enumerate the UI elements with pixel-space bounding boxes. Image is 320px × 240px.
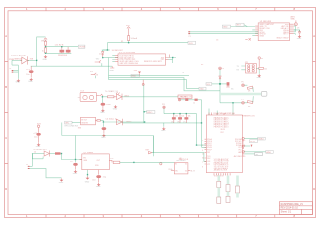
wire connector loop [12,60,18,79]
svg-text:SDA1: SDA1 [258,138,264,141]
resistor R12 [184,117,188,119]
wires from J2 [30,154,33,167]
osc bottom pin 2 cap [98,170,100,175]
3V3 supply dot [37,125,39,127]
wire GND label to pin [231,26,253,28]
ground under C1 [29,78,33,81]
wire flag to 5V run [101,63,103,66]
ferrite bead L1 [36,133,40,136]
wire mcu top riser [232,103,234,115]
svg-text:3V3: 3V3 [78,128,81,130]
junction wire A at D2 [61,46,62,47]
net label box LED RED [178,95,192,98]
pin numbers outside right [244,140,246,158]
junction on rail [128,42,129,43]
net flag arrow GND-sense [95,60,101,63]
right pin stubs [290,24,294,34]
svg-text:RST: RST [221,132,224,134]
net label box 5V0 [188,41,196,44]
svg-text:PWM/GPIO_H1: PWM/GPIO_H1 [242,116,255,118]
antenna wire TX [189,31,259,33]
IC6 MCU body [206,115,242,173]
wire stubs left short [252,27,255,36]
svg-text:GND: GND [96,186,101,188]
junction [107,49,108,50]
svg-text:Sheet: 1/1: Sheet: 1/1 [281,210,292,213]
osc bottom pin 1 gnd [87,170,89,177]
wire 5V horizontal run [31,65,112,67]
svg-text:GND: GND [59,182,64,184]
svg-text:GND: GND [28,81,33,83]
svg-text:10k: 10k [188,116,191,118]
wire LED out [123,121,145,123]
diode D3 [66,50,71,53]
right pin circles [242,137,244,139]
MCU pin text bottom block [214,158,229,172]
wire label to junction [212,83,220,85]
svg-text:P7: P7 [241,99,243,101]
VCC arrow above bus [138,72,141,74]
svg-text:PD1 B: PD1 B [207,141,211,143]
wire down and right to osc [62,154,82,160]
svg-text:P11: P11 [162,104,165,106]
wire pin down [219,70,221,76]
net flag 2 [91,73,96,75]
svg-text:UART-CLK: UART-CLK [179,158,189,161]
grey net box bus end [261,92,267,97]
MCU left edge pin stubs [205,139,207,164]
svg-text:IC2 CP2102-GM: IC2 CP2102-GM [119,52,135,54]
resistor R14 [113,161,120,163]
cap C7 riser [75,136,77,160]
MCU pin text left column [207,138,212,166]
svg-text:XTL1 XTL2 UC VC E: XTL1 XTL2 UC VC E [214,166,229,168]
svg-text:GND: GND [85,182,90,184]
thick bus branch [220,93,261,96]
Q1 oscillator module body [82,154,110,170]
svg-text:V3: V3 [261,58,263,60]
wire 3V3 to IC2 [103,57,118,59]
svg-text:U1 RN2483: U1 RN2483 [260,21,272,23]
ground header [257,74,261,77]
svg-text:C9: C9 [70,161,72,163]
svg-text:GND: GND [257,77,262,79]
svg-text:PD5 F: PD5 F [207,149,211,151]
pale bar col C [236,176,239,187]
wire VIN to regulator [72,122,81,124]
junction on wire A [45,46,46,47]
frame column ticks top [46,8,275,11]
svg-text:22p: 22p [103,177,106,179]
MCU right edge pin stubs extra [242,141,244,148]
wire lower with resistor [244,153,254,155]
gnd drop left [163,123,165,127]
junction 3V3 node [102,57,103,58]
net label box GND [222,25,230,28]
ground under cap [298,35,302,38]
svg-text:GND: GND [36,146,41,148]
svg-text:C3: C3 [216,39,218,41]
svg-text:GND EN: GND EN [81,122,88,124]
svg-text:C: C [5,136,7,140]
svg-text:P5: P5 [241,82,243,84]
via pin down from bus [142,80,144,85]
wire cap to pins [294,30,300,32]
IC4 pin names right column [276,24,289,39]
resistor R11 [178,117,182,119]
pin flags left ends [188,32,190,34]
resistor R1 vertical [44,48,46,53]
header pin circles [248,65,255,72]
mid net label MISO [147,111,155,114]
wire diode output to riser [27,59,36,61]
svg-text:PESD5V0: PESD5V0 [58,55,68,57]
under triangle stub [32,154,43,159]
net label box VIN [65,121,72,124]
wire down to 5V node [36,60,38,66]
box left pin stub [171,170,174,172]
wire A to VUSB label [46,46,79,48]
svg-text:10u: 10u [34,137,37,139]
svg-text:1k: 1k [34,152,36,154]
wire short with comp [244,145,250,147]
wire power input [12,59,22,61]
wire fuse to rail [128,41,130,43]
svg-text:RS2: RS2 [207,158,210,160]
svg-text:PD4 E: PD4 E [207,147,211,149]
fuse F1 vertical [128,28,130,35]
svg-text:10k: 10k [264,68,267,70]
svg-text:500mA: 500mA [131,37,138,40]
IC2 pin name text rows [120,54,165,65]
bus wire 3 with step [109,80,199,89]
ground IC2 [110,66,114,68]
title block text [281,203,304,213]
svg-text:4k7: 4k7 [255,154,258,156]
junction on wire B [45,53,46,54]
output comp [49,153,55,155]
wire to label A [244,138,257,140]
IC5 regulator body [81,117,96,125]
MCU pin text right column [234,138,243,158]
svg-text:10k: 10k [175,116,178,118]
diode D2 [60,50,65,53]
net label box left [206,83,212,86]
svg-text:A: A [313,34,315,38]
svg-text:C10: C10 [92,179,95,181]
pin circle on wire [160,163,162,165]
resistor R7 horizontal [256,67,258,69]
label on bus wire1 [131,74,140,77]
supply arrow right of opto [97,95,100,97]
svg-text:PC5: PC5 [239,149,242,151]
svg-text:B: B [313,85,315,89]
frame column ticks bottom [46,215,275,218]
net label box 2 [236,23,244,26]
frame row ticks left [5,62,9,164]
junction at 58.6 [61,153,62,154]
wire right pins net [294,26,296,32]
wire 5V rail [107,42,188,44]
svg-text:RESET/C1 GND2 EXT1: RESET/C1 GND2 EXT1 [144,61,162,63]
ground under C5 [102,134,106,137]
svg-text:OUT: OUT [96,160,100,162]
svg-text:GND: GND [113,109,118,111]
pale bar col B [227,176,230,185]
diode D1 [21,56,30,64]
wire junction down to bus and beyond [219,84,221,103]
antenna circle [295,23,298,26]
svg-text:O2: O2 [185,171,187,173]
MCU pin text top block [214,116,230,134]
ground chain2 [37,143,41,146]
net stub with label [199,87,206,90]
LED D5 [116,92,122,100]
svg-text:VBUS: VBUS [41,41,47,43]
IC2 serial chip body [118,54,166,65]
svg-text:IN OUT: IN OUT [81,119,87,121]
opto coil circles [83,95,87,99]
ground connector [17,79,21,82]
cap C8 [298,30,301,35]
wire to mcu lower [152,153,206,162]
ground under chain [44,55,48,58]
second label [250,140,258,143]
pin numbers outside left [202,140,204,169]
svg-text:30: 30 [202,158,204,160]
svg-text:C4 100u | 1u: C4 100u | 1u [106,119,117,121]
wire to gnd [258,69,260,74]
junction big [219,83,221,85]
svg-text:J2: J2 [26,164,28,166]
svg-text:1.5k R2 B: 1.5k R2 B [55,45,64,47]
supervisor box Q2 [174,163,188,174]
cap C5 under junction [102,123,104,127]
svg-text:P1: P1 [189,36,191,38]
svg-text:R15 1k: R15 1k [181,96,187,98]
box right pin stub [188,170,191,172]
net flag arrow left [149,151,152,153]
svg-text:REV:2014-01-10: REV:2014-01-10 [281,208,299,210]
pale loop riser joins flag [152,136,154,153]
svg-text:P9: P9 [222,68,224,70]
osc left pin [80,159,82,161]
svg-text:100n: 100n [106,104,110,106]
svg-text:GND: GND [100,112,105,114]
frame row ticks right [313,62,316,164]
VCC flag top [127,27,130,29]
svg-text:GND: GND [223,27,228,29]
diode D6 vertical [219,76,221,79]
riser to bus [108,58,110,80]
pin P11 [163,106,165,108]
MCU top edge ticks [209,113,224,116]
svg-text:GND: GND [73,173,78,175]
svg-text:TXD: TXD [200,89,205,91]
svg-text:VUSB: VUSB [79,47,85,49]
wire from 5V run up into zener [103,49,109,51]
svg-text:R2: R2 [201,64,203,66]
svg-text:GND: GND [110,70,115,72]
svg-text:XT2: XT2 [207,164,210,166]
bus wire 1 [109,75,189,77]
resistor R15 [185,99,188,101]
IC2 right pins [166,58,169,60]
comp on riser [227,82,230,85]
VBUS supply flag [44,38,47,40]
svg-text:TST / Y: TST / Y [283,34,290,36]
svg-text:1k: 1k [193,102,195,104]
svg-text:A: A [5,34,7,38]
net label VUSB box [78,45,85,48]
wire vertical riser to VBUS [37,37,46,61]
comp R8 on gpio1 [242,84,245,87]
riser right top-row [197,114,207,146]
svg-text:RPI-CONN 3V3: RPI-CONN 3V3 [65,126,78,128]
svg-text:RASPPWRLORE_V1: RASPPWRLORE_V1 [281,203,304,206]
svg-text:C: C [313,136,315,140]
left pin stubs [255,26,258,35]
regulator output fuse [96,119,98,121]
svg-text:TO-DO: BOOST: TO-DO: BOOST [11,55,28,57]
pin circle top [219,67,222,70]
wire to R15 [181,99,186,101]
svg-text:GND-E / GND-F: GND-E / GND-F [276,38,288,40]
wire resistor to LED [114,96,117,98]
svg-text:GND: GND [101,137,106,139]
svg-text:1k: 1k [42,51,44,53]
pale stubs above top edge [209,109,217,116]
gpio2 wire [220,102,242,104]
JP1 programming header [246,64,257,73]
svg-text:GND: GND [16,81,21,83]
svg-text:PE0 PE1 PE2 ZT C9: PE0 PE1 PE2 ZT C9 [214,162,228,164]
svg-text:GND VPP / REGIN CHG: GND VPP / REGIN CHG [120,63,139,65]
svg-text:Q1 16MHz: Q1 16MHz [83,152,93,154]
svg-text:GND: GND [297,38,302,40]
svg-text:GND: GND [43,59,48,61]
junction [36,60,37,61]
LED D7 [117,119,123,125]
ground under [60,179,64,182]
wire to label B [244,151,265,153]
svg-text:O1: O1 [185,164,187,166]
svg-text:IC6 ATMEGA328P-AU: IC6 ATMEGA328P-AU [213,112,235,115]
svg-text:GND: GND [161,130,166,132]
pale gnd loop left [62,123,154,157]
svg-text:GND3: GND3 [259,36,264,38]
IC4 pin names left column [259,23,274,37]
IC4 radio module body [258,23,289,41]
antenna wire RX [189,33,259,35]
junction [102,96,103,97]
wire B lower [46,52,72,54]
svg-text:10k: 10k [181,116,184,118]
svg-text:B: B [5,85,7,89]
header left stubs [241,66,245,70]
svg-text:SCL1: SCL1 [250,141,256,143]
right pin stubs red [242,141,244,156]
bus wire 2 with step [109,78,220,91]
pullup pin circle [258,57,260,59]
svg-text:MISO: MISO [147,112,153,114]
svg-text:VIO: VIO [96,59,100,61]
wire IC2 left pin stubs [112,56,115,62]
wire LED to label [122,96,178,98]
connector J1 pins [12,70,14,72]
riser right bottom-row [123,122,202,124]
wire to R16 [188,99,194,101]
pale bar col A [218,176,221,182]
title block border [279,202,312,215]
svg-text:PC1 SCL: PC1 SCL [235,141,242,143]
resistor R10 [172,117,176,119]
resistor R5 [108,96,114,98]
capacitor C1 polarized [29,70,34,73]
ground under C6 [101,109,105,112]
zener D4 on 3V3 [102,50,104,51]
resistor R16 [195,99,198,101]
wire reg out [100,120,123,122]
svg-text:VIN: VIN [65,123,69,125]
opto IC3 box [80,92,96,101]
pin number row under bottom edge [214,173,230,175]
svg-text:D: D [5,187,7,191]
wire to riser [198,99,202,101]
svg-text:PC4: PC4 [239,147,242,149]
wire drop to 5V-BOOST [102,43,110,50]
wire node to resistor [102,96,107,98]
junction reg out [103,121,104,122]
ground symbol right [114,105,118,108]
svg-text:C8: C8 [297,28,299,30]
svg-text:11: 11 [202,154,204,156]
long wire to MCU [120,161,175,163]
header J2 pins [28,166,30,168]
wire pin row to gnd [294,34,296,35]
testpoint X flag [249,38,251,40]
svg-text:10u: 10u [26,74,29,76]
capacitor C6 below node [101,98,103,103]
top row wire [164,113,197,115]
svg-text:D: D [313,187,315,191]
pin circle P12 [178,99,180,101]
